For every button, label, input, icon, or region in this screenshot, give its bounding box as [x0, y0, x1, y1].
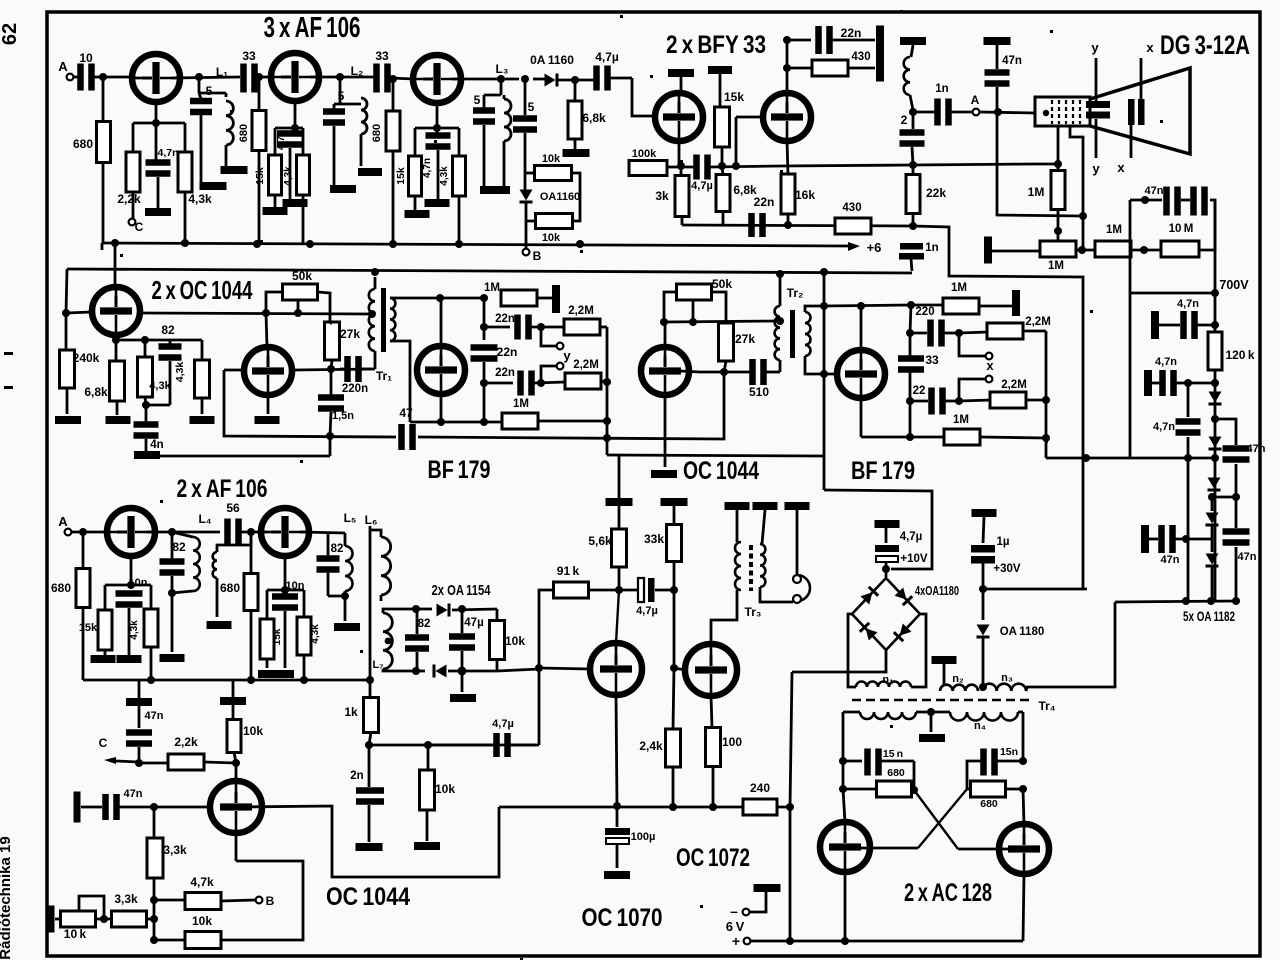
svg-text:2: 2 — [901, 113, 908, 127]
wire bar to T4 — [680, 77, 683, 93]
transformer Tr1 secondary winding — [390, 298, 395, 341]
supply rail y271 — [67, 269, 912, 273]
wire base to 240k — [65, 313, 68, 350]
wire y-plate top — [1095, 58, 1098, 101]
wire T9 top lead — [664, 322, 667, 347]
rail dot 4,3k-1 — [181, 239, 189, 247]
wire rail to bar 10k — [232, 680, 235, 697]
ground 240k — [55, 416, 81, 424]
wire T11 emitter down — [130, 556, 133, 585]
node x333 out — [955, 329, 963, 337]
svg-text:47n: 47n — [1002, 55, 1022, 67]
CRT cathode dot — [1043, 110, 1049, 116]
wire to diode1154-2 — [416, 670, 425, 673]
wire to 10k det — [496, 609, 499, 620]
resistor 120k — [1208, 332, 1222, 370]
capacitor 1u psu — [971, 545, 995, 553]
wire A to C10 — [73, 76, 78, 79]
svg-text:BF 179: BF 179 — [851, 457, 915, 485]
svg-text:1n: 1n — [935, 83, 948, 95]
wire 2,2M-xa to rail — [1023, 330, 1046, 333]
wire HV left riser x1130 — [1129, 200, 1132, 458]
svg-text:100µ: 100µ — [631, 831, 656, 843]
wire n4 to T16 node — [842, 712, 845, 761]
ground af-2 — [258, 670, 294, 678]
capacitor 4,7u sweep electrolytic — [638, 578, 644, 602]
inductor L3 — [504, 99, 511, 141]
svg-text:Tr₁: Tr₁ — [376, 369, 392, 383]
resistor 4,3k oc-a — [138, 357, 153, 397]
terminal bar 47n sync — [126, 698, 152, 706]
svg-text:33: 33 — [925, 353, 939, 367]
wire to L5 — [344, 533, 347, 546]
svg-text:10k: 10k — [435, 782, 455, 796]
wire 15k to gnd — [274, 195, 277, 207]
wire to R660 stage2 — [258, 77, 261, 111]
transistor T6 OC1044 — [92, 287, 140, 335]
svg-text:10 M: 10 M — [1169, 223, 1194, 235]
resistor 1M x-t — [943, 298, 979, 314]
wire 220n to Tr1 — [360, 368, 371, 371]
wire Tr1 sec top out — [390, 297, 397, 300]
wire to 15k-b2 — [266, 590, 269, 619]
wire CRT pin1 down — [1057, 126, 1060, 164]
wire 15n-2 out — [997, 760, 1023, 763]
wire bridge right to n1 — [911, 614, 926, 687]
transformer Tr2 secondary winding — [805, 312, 811, 356]
node 4,3k-a tap — [141, 336, 149, 344]
wire 1k node to 2n — [368, 745, 371, 787]
wire T13 emitter down — [235, 833, 238, 861]
resistor 33k — [667, 525, 682, 562]
wire to 15k-b1 — [104, 585, 107, 610]
wire to 4,3k-b2 — [303, 590, 306, 617]
node 1k-y745 — [365, 741, 373, 749]
wire x1236 below cap — [1235, 464, 1238, 497]
wire 10k-s2 to gnd — [426, 810, 429, 841]
svg-text:4,3k: 4,3k — [149, 380, 171, 392]
wire x824 to +10V node — [824, 490, 932, 569]
wire to R2.2k — [132, 123, 135, 152]
rail941 dot riser — [786, 937, 794, 945]
terminal bar n2 — [932, 656, 957, 664]
wire R680 to bottom rail — [102, 162, 105, 243]
svg-text:10 k: 10 k — [64, 927, 87, 941]
svg-text:47: 47 — [399, 406, 413, 420]
wire to C22n fb — [787, 39, 811, 42]
node pot-x wiper join — [689, 318, 697, 326]
svg-text:62: 62 — [0, 23, 21, 45]
svg-text:680: 680 — [980, 798, 998, 810]
wire y305 to 1M-xt — [911, 304, 944, 307]
node 27k-220n — [327, 365, 335, 373]
diode OA1160 series — [545, 74, 556, 87]
wire to 6,8k — [574, 80, 577, 101]
node emitter1 — [152, 119, 160, 127]
svg-text:22n: 22n — [495, 313, 515, 325]
wire tank1 cap — [199, 93, 201, 99]
capacitor 47n hv-2 — [1159, 370, 1166, 396]
svg-text:4,3k: 4,3k — [174, 362, 186, 383]
wire 47u top — [461, 609, 464, 633]
svg-text:91 k: 91 k — [557, 564, 580, 578]
transistor T16 AC128-1 — [820, 822, 870, 872]
wire 33k node down — [673, 590, 676, 668]
node 27k-510 — [720, 368, 728, 376]
wire Tr1 sec bottom down — [390, 341, 410, 422]
bus166 mid segment — [710, 166, 781, 167]
wire R660-3 to rail — [392, 151, 395, 244]
rail dot 22k — [909, 222, 917, 230]
wire C82-c down — [327, 572, 330, 596]
svg-text:680: 680 — [220, 581, 240, 595]
resistor 10k sync — [227, 720, 241, 753]
wire L1 top stub — [225, 93, 228, 97]
node T7 top — [262, 309, 270, 317]
node y327 — [480, 323, 488, 331]
wire to 680-b2 — [250, 532, 253, 574]
bottom rail y941 — [751, 940, 1023, 943]
svg-text:100: 100 — [722, 735, 742, 749]
wire 680-b2 to rail — [250, 611, 253, 680]
svg-text:2,2k: 2,2k — [117, 192, 141, 206]
svg-text:5: 5 — [528, 100, 535, 114]
node det out top — [458, 605, 466, 613]
transformer Tr2 primary winding — [775, 306, 780, 360]
node chain-bc — [1140, 246, 1148, 254]
svg-text:10: 10 — [79, 51, 93, 65]
svg-text:82: 82 — [418, 618, 431, 630]
wire 47n-6 down — [1235, 547, 1238, 601]
wire diode2 to 10k-2 — [526, 202, 536, 221]
svg-text:5: 5 — [474, 93, 481, 107]
wire 82-det top — [416, 609, 419, 634]
stub 680-2 left — [967, 788, 970, 791]
ground 10k sweep2 — [414, 842, 440, 850]
ground 15k af-1 — [91, 655, 116, 663]
svg-text:y: y — [1091, 40, 1099, 55]
terminal plus — [744, 938, 751, 945]
node Tr2 rail — [776, 270, 784, 278]
wire 10k-b to emitter — [221, 861, 303, 940]
diode bridge-3 — [859, 622, 878, 641]
resistor 1M y-b — [502, 413, 538, 429]
wire C33 to T2 — [257, 76, 272, 79]
node 10k-b — [150, 936, 158, 944]
resistor 10k fb — [185, 932, 221, 949]
wire down to R680 — [102, 77, 105, 121]
wire rail to base T6 — [66, 269, 67, 313]
plate bar 1u psu — [972, 509, 997, 517]
terminal A top — [67, 74, 74, 81]
node 700V — [1211, 289, 1219, 297]
node x607 y383 — [603, 378, 611, 386]
wire pot right leg — [318, 292, 330, 323]
supply bar T4 — [668, 69, 694, 77]
ground 2n — [356, 843, 383, 851]
svg-text:4xOA1180: 4xOA1180 — [915, 584, 959, 598]
wire 47n-1 left — [1159, 324, 1180, 327]
wire to B terminal — [525, 221, 528, 249]
wire C4,7u fb out — [510, 744, 536, 747]
diode bridge-1 — [860, 586, 879, 605]
svg-text:n₁: n₁ — [882, 674, 894, 686]
capacitor 47n sync — [126, 729, 152, 736]
capacitor 2n — [356, 787, 384, 794]
wire 47n-2 left — [1152, 382, 1160, 385]
capacitor 56 — [224, 519, 231, 546]
wire to C4,7u fb — [428, 744, 494, 747]
wire y436 right part to OC1044-3 — [418, 372, 724, 439]
wire HV bottom bus — [1115, 601, 1236, 602]
svg-text:x: x — [1117, 160, 1125, 175]
wire to L2 — [340, 103, 361, 106]
wire 16k to rail — [787, 214, 790, 225]
terminal bar 47n c — [74, 792, 81, 823]
wire 100u to gnd — [616, 845, 619, 868]
svg-text:4,7µ: 4,7µ — [492, 718, 514, 730]
diode OA1160 shunt — [520, 190, 533, 201]
wire 47n-1 to rail — [1197, 324, 1215, 327]
stub tank2 cap — [333, 104, 336, 109]
node fb cap — [783, 36, 791, 44]
diode OA1154-1 — [437, 604, 448, 617]
svg-text:5,6k: 5,6k — [588, 534, 612, 548]
resistor 2,2M x-a — [987, 323, 1023, 339]
wire 2n to gnd — [368, 805, 371, 842]
resistor 27k x — [719, 323, 734, 361]
capacitor 47n hv-1 — [1180, 311, 1187, 339]
svg-text:L₅: L₅ — [344, 511, 357, 525]
node y807 2,4k — [669, 803, 677, 811]
terminal bar pot — [48, 906, 55, 933]
wire 4n node — [146, 404, 170, 407]
resistor 1M x-b — [944, 429, 980, 445]
wire chain to anode caps — [1199, 200, 1215, 250]
svg-text:47n: 47n — [1145, 185, 1164, 197]
svg-text:22n: 22n — [754, 195, 775, 209]
capacitor 4,7n stage1 — [146, 159, 171, 166]
terminal bar jack — [785, 502, 810, 510]
wire to 10k-1 — [525, 172, 535, 175]
svg-text:510: 510 — [749, 385, 769, 399]
wire to 6,8k-2 — [722, 166, 723, 175]
inductor L1 — [226, 101, 233, 145]
svg-text:L₄: L₄ — [198, 512, 211, 526]
transformer Tr3 primary — [735, 542, 741, 590]
wire 4,3k-b to gnd — [201, 398, 204, 414]
ground L4 — [160, 654, 185, 662]
terminal x out 1 — [986, 353, 993, 360]
wire to R430 fb — [787, 67, 812, 70]
svg-text:n₃: n₃ — [1001, 672, 1013, 684]
wire 1M-b to rail — [538, 420, 607, 423]
wire n4 center — [916, 711, 950, 714]
svg-text:C: C — [135, 220, 144, 234]
wire 240k to gnd — [66, 388, 69, 414]
resistor 15k af-2 — [260, 619, 274, 659]
wire to C5-4 — [524, 79, 527, 115]
wire T7 left lead — [224, 369, 241, 372]
wire 47n to A node — [996, 87, 999, 112]
wire n4 left end — [843, 711, 860, 714]
svg-text:50k: 50k — [292, 269, 312, 283]
wire bar to 15k — [719, 74, 722, 107]
wire 10n-2 down — [284, 611, 287, 668]
svg-text:1,5n: 1,5n — [332, 410, 354, 422]
node T14 base — [535, 664, 543, 672]
wire C5-4 down — [524, 133, 527, 173]
svg-text:50k: 50k — [712, 277, 732, 291]
svg-text:15k: 15k — [395, 167, 407, 185]
wire C33-2 to T3 — [390, 78, 414, 79]
wire to C82-b — [171, 532, 174, 559]
svg-text:4,7n: 4,7n — [422, 158, 433, 178]
svg-text:+30V: +30V — [993, 563, 1021, 575]
potentiometer 50k if — [283, 284, 318, 300]
wire 47n-5 left — [1149, 538, 1158, 541]
svg-text:OC 1072: OC 1072 — [676, 844, 750, 872]
wire 6,8k-2 to rail — [722, 211, 725, 225]
wire y436 left part — [224, 370, 396, 437]
capacitor 4,7n stage3 — [426, 132, 451, 139]
wire C2 to bus166 — [912, 147, 913, 165]
node T14 collector — [615, 586, 623, 594]
terminal bar 5,6k — [606, 498, 633, 506]
ground tank1 cap — [200, 182, 227, 190]
svg-text:1M: 1M — [1048, 260, 1064, 272]
wire T12 emitter down — [284, 556, 287, 595]
capacitor 82 det — [405, 634, 429, 641]
diode OA1180 psu — [977, 625, 990, 636]
wire tank2af join — [328, 595, 345, 598]
wire choke to C1n — [913, 111, 935, 114]
wire tank to gnd — [344, 596, 347, 621]
node T16 collector — [839, 785, 847, 793]
wire C5-2 down — [333, 126, 336, 185]
node ladder-d — [1182, 535, 1190, 543]
wire to x terminal 1 — [959, 333, 985, 356]
svg-text:1M: 1M — [484, 282, 500, 294]
svg-text:4,3k: 4,3k — [188, 192, 212, 206]
capacitor 82 oc — [159, 343, 182, 350]
wire ladder b-c — [1212, 496, 1236, 499]
diode OA1182-5 — [1206, 554, 1219, 565]
wire T14 emitter down — [616, 695, 617, 806]
wire T7 emitter to gnd — [267, 395, 270, 414]
wire emitter branch y340 — [116, 339, 202, 342]
svg-text:4,7n: 4,7n — [276, 130, 287, 150]
wire bar to C47n-c — [81, 806, 102, 809]
inductor L6 — [381, 537, 391, 595]
wire 680-2 out — [1006, 788, 1023, 791]
capacitor 510 — [749, 359, 756, 385]
resistor 3k — [675, 176, 689, 217]
capacitor 47n hv-5 — [1158, 525, 1165, 553]
node 3,3k tap — [150, 803, 158, 811]
wire to 3k — [680, 166, 683, 176]
wire x-plate bottom — [1130, 125, 1133, 158]
svg-text:22k: 22k — [926, 186, 946, 200]
scan speckles — [434, 140, 437, 143]
wire T17 top lead — [1023, 789, 1024, 824]
margin mark — [4, 352, 13, 355]
svg-text:4,3k: 4,3k — [129, 620, 140, 640]
transformer Tr4 winding n1 — [856, 682, 911, 688]
ground 100u — [604, 871, 630, 879]
wire emitter node stage2 — [275, 127, 303, 130]
resistor 10k agc-1 — [535, 166, 572, 181]
terminal bar battery minus — [754, 884, 781, 892]
ground 4,3k oc-b — [190, 416, 215, 424]
resistor 4,3k stage1 — [178, 152, 192, 192]
wire T1 emitter down — [155, 102, 158, 160]
wire 47n-2 right — [1176, 382, 1188, 385]
terminal bar 10k sync — [220, 697, 246, 705]
inductor L4 secondary — [213, 552, 217, 578]
ground tank2 cap — [330, 185, 356, 193]
svg-text:82: 82 — [161, 323, 175, 337]
svg-text:BF 179: BF 179 — [428, 456, 491, 484]
wire mv right join — [967, 761, 981, 789]
plate bar y-t — [552, 285, 560, 313]
resistor 680 af-2 — [244, 574, 258, 611]
svg-text:240: 240 — [750, 781, 770, 795]
wire Tr2 sec bottom to T10 base — [805, 356, 836, 374]
ground 6,8k oc1044 — [106, 416, 131, 424]
resistor 2,2k sweep — [168, 754, 204, 770]
resistor 1M chain-a — [1040, 241, 1076, 257]
node +30V — [979, 585, 987, 593]
transistor T3 AF106 — [413, 55, 461, 103]
svg-text:700V: 700V — [1219, 278, 1249, 292]
wire 27k down — [331, 360, 332, 369]
wire C4n to bar — [145, 439, 148, 451]
node T8 top — [436, 294, 444, 302]
diode OA1182-4 — [1206, 513, 1219, 524]
svg-text:22n: 22n — [841, 26, 862, 40]
wire x401 right — [959, 400, 991, 401]
node C5-4 tap — [521, 75, 529, 83]
capacitor 22n feedback — [815, 26, 822, 54]
wire L3 down — [503, 141, 506, 186]
wire T3 collector out — [452, 78, 519, 81]
resistor 4,3k stage2 — [297, 155, 310, 195]
wire T9 emitter down — [664, 395, 667, 467]
wire to 220n — [340, 368, 346, 371]
wire 3k to rail225 — [681, 217, 684, 225]
resistor 430 feedback — [812, 60, 848, 76]
svg-text:C: C — [99, 736, 108, 750]
wire x terminal 2 — [959, 379, 985, 401]
wire to diode2 — [524, 173, 527, 191]
capacitor 4n — [134, 421, 159, 428]
svg-text:B: B — [266, 894, 275, 908]
wire diode4 to diode5 — [1211, 526, 1214, 552]
resistor 15k stage2 — [269, 155, 282, 195]
resistor 240 — [743, 799, 777, 815]
svg-text:82: 82 — [331, 543, 344, 555]
wire down to 15n — [330, 369, 333, 395]
svg-text:DG 3-12A: DG 3-12A — [1160, 30, 1250, 60]
wire y458 return — [1046, 457, 1215, 460]
wire to 4,3k-2 — [302, 128, 305, 155]
terminal minus — [743, 909, 750, 916]
supply bar choke — [900, 37, 926, 45]
svg-text:4,7µ: 4,7µ — [636, 605, 658, 617]
node y327 cap out — [537, 323, 545, 331]
wire 680-1 out — [911, 788, 914, 791]
